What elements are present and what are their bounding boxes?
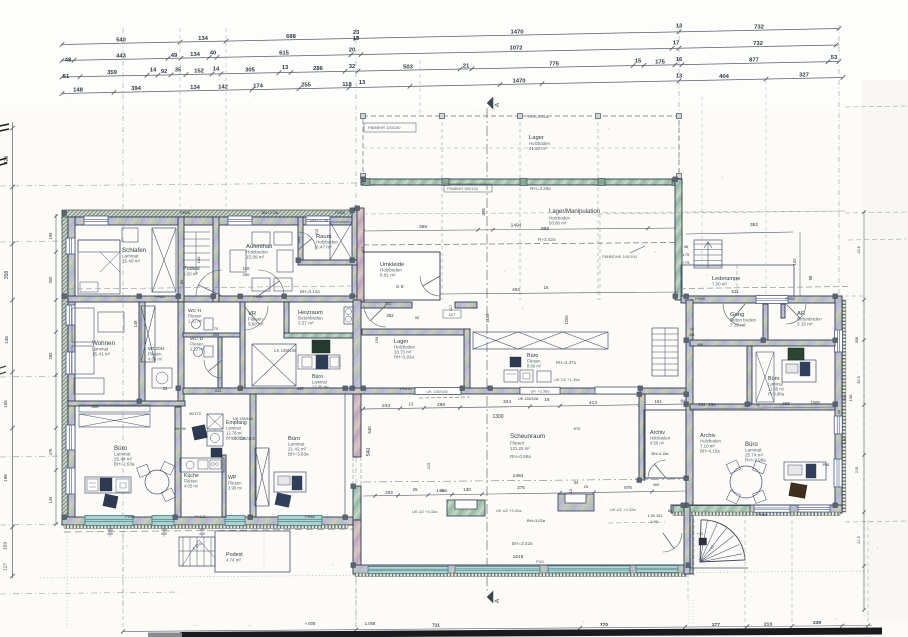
wall junction posts [62,177,838,568]
label room Archiv right [700,433,722,454]
left south wall dot band [64,525,348,529]
vertical grid line x420 [419,60,421,116]
svg-text:375: 375 [517,485,525,490]
svg-text:8.06 m²: 8.06 m² [527,364,542,369]
svg-text:117: 117 [448,304,453,311]
svg-text:RH=3.11a: RH=3.11a [528,114,549,119]
svg-text:443: 443 [116,54,127,60]
kitchenette mid buero [298,340,340,369]
left building north hatched band [62,210,362,217]
svg-text:150: 150 [842,394,847,401]
svg-text:213: 213 [314,228,319,235]
right interior wall y340 [690,340,835,346]
svg-text:...: ... [248,622,251,627]
Podest entry platform [215,531,290,572]
svg-text:15: 15 [635,58,642,64]
svg-text:9.59 m²: 9.59 m² [650,441,665,446]
svg-text:RH=3.03a: RH=3.03a [394,355,414,360]
svg-text:UK 135/108: UK 135/108 [518,397,538,401]
dim row inside Manipulation [361,222,758,233]
svg-text:198: 198 [848,394,853,401]
svg-text:Fliesen: Fliesen [510,441,525,446]
label room Schlafen [122,247,147,264]
dimension row 3 [60,55,842,80]
right south wall green segment [673,506,750,513]
door arc mid corridor [364,305,386,327]
Lager-Manipulation north wall [361,179,681,185]
svg-text:277: 277 [712,622,720,628]
horizontal grid line y375 [0,376,64,377]
vertical grid line x356 [355,28,357,630]
svg-text:PH85: PH85 [155,295,165,299]
svg-text:327: 327 [799,73,810,79]
svg-text:103: 103 [3,542,9,550]
horizontal grid line y455 [0,456,64,457]
svg-text:1300: 1300 [492,414,503,420]
grid line right margin y520 [845,521,906,522]
north wall window right building [756,296,788,304]
svg-text:152: 152 [194,69,205,75]
label room Lager mid [394,339,416,360]
ar west wall [781,304,785,318]
svg-text:300: 300 [48,276,53,284]
label room Buero west [114,445,135,467]
left margin dimension line [3,122,15,578]
svg-text:RH=3.26a: RH=3.26a [530,186,551,191]
desk Buero west [85,477,131,508]
svg-text:16: 16 [676,57,683,63]
svg-text:1494: 1494 [511,223,522,229]
svg-text:195: 195 [48,232,53,240]
svg-text:142: 142 [218,84,229,90]
svg-text:42: 42 [756,403,760,407]
wc fixtures WC-D [194,346,214,357]
svg-text:806: 806 [92,404,100,409]
svg-text:180: 180 [196,256,201,263]
raum south wall [298,260,360,265]
svg-text:BH=3.12a: BH=3.12a [300,289,320,294]
label Lager hall [529,135,551,151]
bottom scan edge fade left [148,633,182,637]
entry stair bottom left [179,537,215,566]
svg-text:1.008: 1.008 [365,621,376,626]
svg-text:UK UZ +3.32a: UK UZ +3.32a [610,507,636,512]
middle interior wall y302 piece east [455,302,477,308]
svg-text:13: 13 [359,80,366,86]
svg-text:234: 234 [699,402,707,407]
dashed outline right of building [363,80,906,610]
svg-text:485: 485 [441,488,448,493]
svg-text:80: 80 [179,279,184,284]
manipulation east wall [675,179,682,300]
svg-text:615: 615 [279,50,290,56]
plant right buero small [788,348,804,360]
scheune east wall [639,394,645,480]
roof overhang dash right building [680,287,850,289]
desk right buero big [784,462,826,498]
spiral stair bottom right [686,519,748,576]
middle lager west wall [353,300,361,394]
label FBHBOHE 100/100 [602,246,645,259]
stacked dims under south wall [107,525,205,537]
gang-ar divider [763,304,768,340]
svg-text:148: 148 [133,320,138,328]
svg-text:110: 110 [243,266,250,271]
vertical dashed drops to bottom dim line [123,513,868,630]
label FBMBHR 100/100 second [444,184,492,192]
svg-text:711: 711 [432,623,440,629]
horizontal grid line y592 [0,592,182,594]
dark plant mid buero [312,340,330,353]
east wall dot band [843,300,846,512]
closet column Wohnen east [141,306,155,362]
svg-text:PH85: PH85 [253,295,263,299]
clutter small dims right building [652,297,860,517]
door Aufenthalt [258,270,284,296]
buero1 east wall [175,407,181,517]
svg-text:155: 155 [3,400,8,408]
left edge scan marks [0,124,9,165]
svg-text:368: 368 [419,224,427,230]
svg-text:161: 161 [654,399,662,404]
svg-text:285: 285 [48,352,53,360]
svg-text:28: 28 [837,410,841,414]
svg-text:BH=3.02a: BH=3.02a [512,541,533,546]
svg-text:3.15 m²: 3.15 m² [797,322,813,327]
stair top right [694,240,722,268]
door WC-DU [204,360,222,378]
dashed opening lager mid top [419,397,470,398]
label room Wohnen [92,340,115,357]
label label Podest entry [226,552,243,563]
svg-text:975: 975 [624,485,632,490]
svg-text:...: ... [193,622,196,627]
label room Lederampe [712,276,740,287]
room Archiv middle walls [644,410,686,478]
svg-text:13: 13 [408,401,414,406]
svg-text:FBHBOHE 100/100: FBHBOHE 100/100 [602,254,638,259]
right margin vertical dim line [857,210,866,611]
horizontal grid line y240 [0,241,64,242]
svg-text:260: 260 [243,272,250,277]
svg-text:55/190: 55/190 [174,427,186,431]
svg-text:398: 398 [481,208,486,216]
door Schlafen [196,270,222,296]
svg-text:540: 540 [116,38,127,44]
svg-text:13: 13 [676,23,683,29]
svg-text:15.8: 15.8 [857,246,861,253]
svg-text:988: 988 [541,226,549,232]
label Lager Manipulation [549,209,600,226]
label room Aufenthalt [246,244,272,260]
svg-text:30.5: 30.5 [857,376,861,383]
vertical grid line x679 [678,25,680,300]
svg-text:7.00 m²: 7.00 m² [712,282,727,287]
svg-text:14: 14 [150,68,157,74]
svg-text:352: 352 [386,313,394,318]
desk icons Buero mid [504,357,551,382]
lager mid east wall [464,329,470,394]
dim row under archiv right [690,400,835,409]
desk right buero small [782,348,816,382]
svg-text:A: A [494,102,501,107]
scheune west opening dashes [352,457,354,486]
svg-text:203: 203 [385,490,393,495]
svg-text:44: 44 [690,327,694,331]
svg-text:P88: P88 [823,463,830,467]
label room Heizraum [298,310,323,326]
svg-text:175: 175 [655,59,666,65]
long counter with X bracing [473,332,608,349]
archiv-buero divider right [747,346,752,404]
wp west wall [250,394,256,517]
svg-text:51: 51 [63,74,70,80]
svg-text:413: 413 [589,400,597,406]
svg-text:358: 358 [855,337,859,343]
svg-text:A: A [494,598,501,603]
svg-text:25: 25 [584,484,589,489]
svg-text:503: 503 [403,64,414,70]
svg-text:PH133: PH133 [194,515,206,519]
svg-text:B B: B B [396,284,403,289]
Lager hall dashed outline [361,114,682,301]
vertical dotted x264 bottom [263,520,265,572]
left building east wall / junction [352,208,361,302]
svg-text:1.90 161: 1.90 161 [648,514,663,518]
vertical dotted x67 bottom [66,532,68,628]
wc fixtures WC-H [192,318,214,330]
clutter small dims middle [367,301,660,523]
label room Buero 2 [288,436,309,457]
tables Aufenthalt [230,232,293,291]
label room Buero small mid [312,374,329,390]
svg-text:BH=2.63a: BH=2.63a [114,462,135,467]
svg-text:400: 400 [653,482,660,487]
svg-text:146: 146 [48,496,53,504]
svg-text:234: 234 [708,402,716,407]
svg-text:145: 145 [842,436,847,443]
label room WC-D [190,336,205,352]
label room Archiv middle [650,430,671,446]
posts on north wall [363,179,370,186]
svg-text:1.90: 1.90 [650,520,657,524]
svg-text:988: 988 [697,343,703,347]
svg-text:1265: 1265 [564,315,569,325]
svg-text:732: 732 [754,24,765,30]
Scheune north wall [183,388,688,394]
gate box 2 [558,494,594,511]
svg-text:134: 134 [190,85,201,91]
svg-text:PH0: PH0 [536,559,545,564]
wardrobe Schlafen [152,228,176,292]
gate box 1 [447,500,485,516]
svg-text:174: 174 [253,84,264,90]
svg-text:305: 305 [245,67,256,73]
svg-text:215: 215 [426,462,431,469]
corridor wall x178 mid [178,302,184,401]
svg-text:404: 404 [719,74,730,80]
dim row y520 left of spiral [648,514,663,524]
svg-text:368: 368 [782,401,790,406]
svg-text:UK 135/108: UK 135/108 [233,417,253,421]
wardrobe Buero2 [255,448,269,506]
svg-text:1008: 1008 [810,400,820,405]
roof overhang dashed line left building [64,529,356,532]
svg-text:21.9: 21.9 [857,536,861,543]
svg-text:+75: +75 [683,260,691,265]
svg-text:255: 255 [301,83,312,89]
svg-text:877: 877 [749,57,760,63]
wohnen east wall [139,302,145,401]
svg-text:476: 476 [48,448,53,456]
dim row Scheune top [361,397,690,411]
svg-text:4.05 m²: 4.05 m² [184,484,199,489]
svg-text:50.80 m²: 50.80 m² [549,221,567,226]
small dims left of stair [683,244,691,265]
left building west wall [68,217,75,520]
svg-text:15.41 m²: 15.41 m² [92,352,111,357]
heizraum south wall [284,333,356,338]
svg-text:+12: +12 [697,532,703,536]
svg-text:UK 135/108: UK 135/108 [232,436,256,441]
label room WP [228,475,243,491]
right south wall dot band [673,512,840,516]
bottom dimension line [121,620,872,634]
wc-h south wall [183,333,240,337]
svg-text:13: 13 [676,73,683,79]
svg-text:570: 570 [574,426,581,431]
svg-text:130: 130 [463,487,471,492]
ceiling dashed line left building [68,286,352,289]
south wall windows [85,516,133,526]
svg-text:35: 35 [175,68,182,74]
right building south wall [671,505,842,513]
svg-text:243: 243 [382,403,390,409]
svg-text:118: 118 [342,82,352,88]
svg-text:14: 14 [213,66,220,72]
svg-text:204: 204 [213,333,219,337]
svg-text:34: 34 [574,480,579,485]
svg-text:+.008: +.008 [305,621,316,626]
svg-text:13: 13 [282,65,289,71]
left building west hatched band [62,217,68,525]
desk Buero2 [274,472,306,507]
svg-text:688: 688 [286,34,297,40]
lederampe edge line [686,232,793,234]
door Umkleide [420,276,440,296]
dim marks y300 row [386,310,461,320]
svg-text:PH85: PH85 [335,210,346,215]
svg-text:20: 20 [349,48,356,54]
svg-text:286: 286 [313,66,324,72]
svg-text:PH88: PH88 [757,513,767,517]
north wall windows [84,216,108,225]
right small dim labels [842,394,853,443]
south wall windows right building [754,505,790,512]
scheune south wall [353,565,688,574]
svg-text:1470: 1470 [512,78,526,84]
svg-text:175: 175 [683,252,690,257]
svg-text:RH=0.69a: RH=0.69a [510,454,531,459]
round table right buero [726,460,766,504]
interior wall y401 bottom row top [68,401,185,406]
svg-text:359: 359 [107,70,118,76]
right interior wall y404, [690,404,835,410]
kitchen counter Kueche [180,458,224,472]
grid line y521 left of stair [608,522,665,523]
svg-text:196: 196 [3,474,8,482]
svg-text:121.25 m²: 121.25 m² [510,446,530,451]
washer dryer Empfang [192,414,223,457]
section line A-A [487,97,501,603]
svg-text:41.60 m²: 41.60 m² [529,146,547,151]
middle west wall upper [357,208,364,302]
svg-text:312: 312 [215,388,223,393]
svg-text:84: 84 [668,508,673,513]
door VR [244,306,268,330]
svg-text:1150: 1150 [485,313,490,323]
scheune south wall dot band [355,573,686,577]
svg-text:443: 443 [297,386,305,391]
svg-text:BH=3.63a: BH=3.63a [288,452,309,457]
svg-text:FBMBHR 100/100: FBMBHR 100/100 [447,187,478,191]
svg-text:540: 540 [367,426,372,434]
label room Empfang [226,420,247,441]
vertical grid line x180 [179,28,181,212]
scheune south wall window band [368,566,678,574]
svg-text:775: 775 [549,61,560,67]
svg-text:PH85: PH85 [125,515,135,519]
west side vertical dimension chain [48,214,58,526]
label room Kueche [184,473,199,489]
right lower west wall [684,505,690,574]
vertical grid line x839 [838,25,840,302]
svg-text:25: 25 [413,487,418,492]
svg-text:46: 46 [684,244,689,249]
svg-text:239: 239 [813,620,821,626]
aufenthalt west wall [213,217,219,302]
svg-text:134: 134 [190,52,201,58]
svg-text:UK OZ +1.35a: UK OZ +1.35a [554,377,580,382]
shower WC/DU [152,368,172,388]
svg-text:511: 511 [731,289,739,294]
svg-text:1618: 1618 [513,554,524,560]
dim line y292 middle [440,285,679,294]
svg-text:AB: AB [689,333,695,337]
svg-text:1494: 1494 [513,473,524,479]
scheune west wall green part [353,486,361,520]
svg-text:49: 49 [171,53,178,59]
svg-text:4.74 m²: 4.74 m² [226,558,241,563]
vr west wall [240,302,245,392]
right building west wall [686,300,693,574]
svg-text:PH85: PH85 [695,297,705,301]
lager mid top wall [362,329,470,335]
svg-text:21: 21 [463,63,470,69]
svg-text:146: 146 [4,336,9,344]
dim 102 vertical right [792,232,800,296]
left building north wall [62,217,362,225]
clutter small dims left building [92,210,366,519]
svg-text:90/170: 90/170 [189,412,201,416]
west wall windows [66,238,75,254]
right building east wall [835,296,842,513]
middle interior wall y302 piece west [357,302,412,308]
svg-text:40: 40 [210,50,217,56]
door AR [786,304,806,324]
svg-text:53: 53 [831,55,838,61]
interior wall y388 middle block [183,388,360,394]
